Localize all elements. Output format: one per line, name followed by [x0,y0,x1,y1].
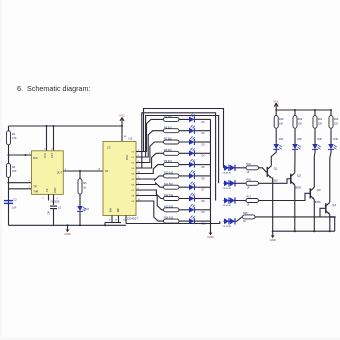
wire net bottom D [125,216,127,224]
svg-text:100: 100 [334,123,339,126]
wire net over-top B [146,116,219,184]
LED D3b [312,144,318,149]
svg-text:R18: R18 [243,212,248,215]
svg-text:RST: RST [51,153,54,158]
svg-text:VCC: VCC [119,114,125,118]
resistor R21 [313,116,317,129]
wire 555 OUT to 4017 CLK [63,170,103,172]
wire right emitter bus [273,230,335,232]
svg-text:R12 510: R12 510 [164,194,174,197]
op-amp U1 NE555 body [32,151,64,195]
resistor R2 [7,163,11,177]
wire Q4 collector [330,150,331,203]
svg-text:D10: D10 [202,223,207,226]
transistor Q2 [290,174,292,184]
svg-text:GND: GND [207,235,213,239]
svg-text:2X-4148: 2X-4148 [223,226,232,228]
svg-text:CP: CP [105,170,109,173]
wire C3 to ground bus [53,209,55,225]
transistor Q1 [266,167,268,177]
svg-text:GND: GND [270,238,276,242]
wire Q4 emitter [329,215,331,232]
ground right GND [272,231,274,236]
svg-text:THR: THR [33,191,38,194]
wire column 4 top [330,110,332,116]
svg-text:VDD: VDD [126,155,129,160]
resistor R11 row 7 [162,186,190,188]
resistor R10 row 6 [162,175,190,177]
power VCC left symbol [121,118,123,127]
wire D11 to ground bus [79,212,81,226]
resistor R15 [246,166,259,170]
LED D6 [189,173,194,179]
resistor R9 row 5 [162,164,190,166]
svg-text:1K: 1K [83,187,86,190]
wire Q1 emitter [272,178,273,231]
wire left rail [8,126,10,225]
LED D11 [77,206,83,211]
ground middle GND [210,228,212,233]
svg-text:R7 510: R7 510 [164,138,172,141]
LED D5 [189,162,194,168]
U2 output pins O0-O9 [136,151,141,153]
wire row4 to Q4 base and return [255,217,335,231]
svg-text:1K: 1K [247,187,250,190]
svg-text:R5 510: R5 510 [164,115,172,118]
resistor R18 [243,215,256,219]
svg-text:D3b: D3b [318,138,323,141]
wire column 1 top [275,110,277,116]
svg-text:100: 100 [298,123,303,126]
LED D4b [328,144,334,149]
svg-text:R6 510: R6 510 [164,126,172,129]
svg-text:VCC: VCC [273,99,279,103]
wire R3 to D11 [79,194,81,206]
resistor R22 [329,116,333,129]
svg-text:R11 510: R11 510 [164,183,174,186]
wire 555 GND pin1 down [48,194,50,200]
svg-text:R15: R15 [247,163,252,166]
wire bottom ground bus [9,224,127,226]
resistor R14 row 10 [162,220,190,222]
wire VCC top bus [9,125,123,127]
wire right top bus [276,109,331,111]
resistor R7 row 3 [162,141,190,143]
svg-text:2X-4148: 2X-4148 [223,172,232,174]
U2 bottom pin stubs [111,216,113,223]
svg-text:100: 100 [318,123,323,126]
resistor R20 [293,116,297,129]
resistor R19 [274,116,278,129]
svg-text:47K: 47K [12,137,17,140]
svg-text:1K: 1K [247,171,250,174]
capacitor C2 [4,200,13,201]
power VCC right symbol [275,103,277,110]
wire row2 to Q2 base [259,179,291,184]
svg-text:MR: MR [118,208,120,212]
svg-text:CD4017: CD4017 [127,217,138,221]
svg-text:8050: 8050 [295,185,301,189]
svg-text:CV: CV [46,188,49,192]
svg-text:GND: GND [54,187,57,193]
wire VCC to 4017 VDD pin16 [121,126,123,142]
svg-text:R19: R19 [279,118,284,121]
wire 555 RST pin4 stub [53,126,55,151]
diode pair D15 [224,220,237,222]
resistor R8 row 4 [162,152,190,154]
diode pair D13 [224,182,247,184]
svg-text:R17: R17 [247,196,252,199]
wire row1 to Q1 base [259,168,268,172]
wire column 2 top [294,110,296,116]
transistor Q3 [309,188,311,198]
wire Q2 emitter [294,185,296,231]
wire LED cathode bus [210,119,212,228]
wire Q2 collector [294,150,296,173]
svg-text:TR: TR [33,186,37,189]
svg-text:R16: R16 [247,179,252,182]
LED D1b [273,144,279,149]
resistor R17 [246,199,259,203]
svg-text:U2: U2 [129,137,133,141]
svg-text:8050: 8050 [330,215,336,219]
svg-text:100: 100 [279,123,284,126]
svg-text:2X-4148: 2X-4148 [223,188,232,190]
page edge shading [0,0,2,340]
resistor R16 [246,181,259,185]
transistor Q4 [325,203,327,213]
svg-text:OUT: OUT [57,172,63,175]
svg-text:2X-4148: 2X-4148 [223,205,232,207]
LED D2b [292,144,298,149]
resistor R13 row 9 [162,209,190,211]
wire column 1 mid [275,128,277,144]
wire D11 branch down [79,171,81,179]
svg-text:R20: R20 [298,118,303,121]
svg-text:1uF: 1uF [12,207,17,210]
LED D10 [189,218,194,224]
node junction R2-C2 [8,182,10,184]
svg-text:VCC: VCC [44,153,47,158]
svg-text:Q3: Q3 [317,188,321,192]
wire column 4 mid [330,128,332,144]
LED D1 [189,117,194,123]
svg-text:Q2: Q2 [297,174,301,178]
svg-text:R13 510: R13 510 [164,205,174,208]
wire column 3 mid [314,128,316,144]
LED D2 [189,128,194,134]
LED D9 [189,207,194,213]
svg-text:D1b: D1b [279,138,284,141]
svg-text:R14 510: R14 510 [164,217,174,220]
wire Q3 emitter [313,200,315,232]
svg-text:D11: D11 [85,208,90,211]
resistor R5 row 1 [162,118,190,120]
svg-text:8050: 8050 [315,200,321,204]
svg-text:GND: GND [64,232,70,236]
capacitor C3 [50,206,57,207]
svg-text:INH: INH [111,208,113,212]
LED D3 [189,139,194,145]
wire column 2 mid [294,128,296,144]
resistor R12 row 8 [162,198,190,200]
svg-text:1K: 1K [247,204,250,207]
svg-text:D2b: D2b [298,138,303,141]
node junction R1-R2 pin7 [8,154,10,156]
svg-text:Q1: Q1 [274,167,278,171]
wire row3 to Q3 base [259,193,311,200]
LED D4 [189,150,194,156]
svg-text:D4b: D4b [334,138,339,141]
svg-text:47K: 47K [12,170,17,173]
svg-text:1K: 1K [243,220,246,223]
svg-text:R8 510: R8 510 [164,149,172,152]
svg-text:CO: CO [107,147,111,150]
IC U2 CD4017 body [103,142,136,216]
svg-text:R10 510: R10 510 [164,172,174,175]
svg-text:R22: R22 [334,118,339,121]
resistor R1 [7,131,11,145]
wires 4017 outputs to LED rows [141,119,162,151]
wire net diode column C [142,113,216,201]
diode pair D14 [224,200,247,202]
LED D7 [189,184,194,190]
resistor R3 [78,179,82,194]
svg-text:DIS: DIS [33,157,38,160]
svg-text:6. Schematic diagram:: 6. Schematic diagram: [17,84,91,93]
diode pair D12 [224,167,247,169]
wire to THR pin6 [9,182,32,184]
svg-text:R21: R21 [318,118,323,121]
wire 555 VCC pin8 stub [46,126,48,151]
wire to TR pin2 [9,188,32,190]
wire net over-top A [144,109,224,168]
wire Q3 collector [313,150,316,188]
svg-text:104: 104 [47,210,50,215]
LED D8 [189,196,194,202]
ground left GND [67,224,69,226]
svg-text:NE555: NE555 [51,199,60,203]
wire Q1 collector [271,150,276,166]
wire 555 CV pin5 down [53,194,55,205]
wire column 3 top [314,110,316,116]
resistor R6 row 2 [162,130,190,132]
svg-text:R9 510: R9 510 [164,160,172,163]
svg-text:Q4: Q4 [332,203,336,207]
